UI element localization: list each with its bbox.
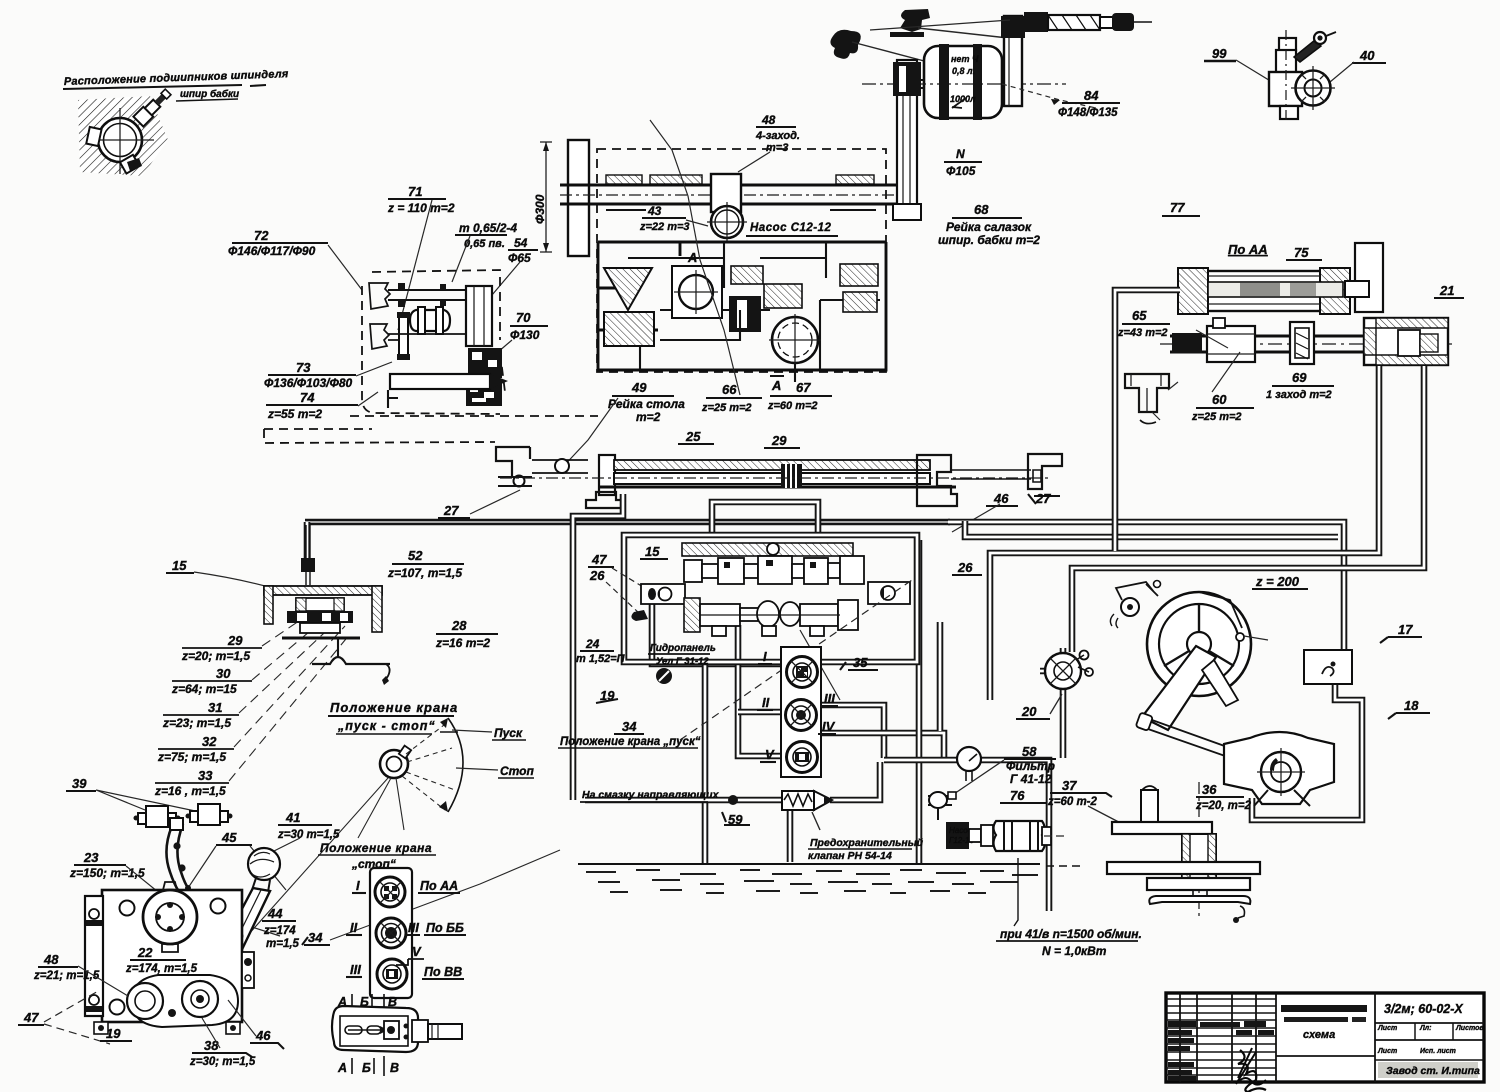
- svg-text:30: 30: [216, 666, 231, 681]
- svg-text:Положение крана „пуск“: Положение крана „пуск“: [560, 736, 701, 748]
- svg-text:18: 18: [1404, 698, 1419, 713]
- svg-text:Ф105: Ф105: [946, 164, 976, 178]
- svg-text:1000л: 1000л: [950, 94, 976, 104]
- svg-text:71: 71: [408, 184, 422, 199]
- svg-text:Ф146/Ф117/Ф90: Ф146/Ф117/Ф90: [228, 244, 316, 258]
- svg-text:15: 15: [645, 544, 660, 559]
- svg-text:24: 24: [585, 637, 600, 651]
- svg-text:0,65 пв.: 0,65 пв.: [464, 238, 505, 250]
- svg-text:z=55 m=2: z=55 m=2: [267, 407, 322, 421]
- svg-text:34: 34: [308, 930, 323, 945]
- svg-text:шпир бабки: шпир бабки: [180, 88, 239, 100]
- svg-text:75: 75: [1294, 245, 1309, 260]
- svg-text:z=107, m=1,5: z=107, m=1,5: [387, 566, 462, 580]
- svg-text:0,8 л.: 0,8 л.: [952, 66, 975, 76]
- svg-text:z=174: z=174: [263, 925, 296, 937]
- svg-text:32: 32: [202, 734, 217, 749]
- svg-text:36: 36: [1202, 782, 1217, 797]
- svg-text:V: V: [765, 747, 775, 762]
- svg-text:67: 67: [796, 380, 811, 395]
- svg-text:Фильтр: Фильтр: [1006, 759, 1055, 773]
- svg-text:N = 1,0кВт: N = 1,0кВт: [1042, 944, 1107, 958]
- svg-text:1 заход m=2: 1 заход m=2: [1266, 389, 1332, 401]
- svg-text:39: 39: [72, 776, 87, 791]
- svg-text:z = 200: z = 200: [1255, 574, 1300, 589]
- svg-text:Г 41-12: Г 41-12: [1010, 772, 1052, 786]
- svg-text:37: 37: [1062, 778, 1077, 793]
- svg-text:z=75; m=1,5: z=75; m=1,5: [157, 750, 226, 764]
- svg-text:По ББ: По ББ: [426, 921, 464, 935]
- svg-text:z=23; m=1,5: z=23; m=1,5: [162, 716, 231, 730]
- svg-text:N: N: [956, 147, 965, 161]
- svg-text:z=21; m=1,5: z=21; m=1,5: [33, 970, 100, 982]
- svg-text:I: I: [356, 878, 360, 893]
- svg-text:58: 58: [1022, 744, 1037, 759]
- svg-text:26: 26: [957, 560, 973, 575]
- svg-text:48: 48: [43, 952, 59, 967]
- svg-text:II: II: [350, 920, 358, 935]
- svg-text:27: 27: [443, 503, 459, 518]
- svg-text:52: 52: [408, 548, 423, 563]
- svg-text:IV: IV: [822, 719, 836, 734]
- svg-text:Пуск: Пуск: [494, 726, 523, 740]
- svg-text:70: 70: [516, 310, 531, 325]
- svg-text:III: III: [824, 691, 835, 706]
- svg-text:46: 46: [993, 491, 1009, 506]
- svg-text:84: 84: [1084, 88, 1099, 103]
- svg-text:41: 41: [285, 810, 300, 825]
- svg-text:38: 38: [204, 1038, 219, 1053]
- svg-text:48: 48: [761, 113, 776, 127]
- svg-text:А: А: [687, 250, 697, 265]
- svg-text:m=1,5: m=1,5: [266, 938, 300, 950]
- svg-text:65: 65: [1132, 308, 1147, 323]
- svg-text:m 1,52=П: m 1,52=П: [576, 653, 626, 665]
- svg-text:z = 110 m=2: z = 110 m=2: [387, 201, 455, 215]
- svg-text:40: 40: [1359, 48, 1375, 63]
- svg-text:II: II: [762, 695, 770, 710]
- svg-text:По ВВ: По ВВ: [424, 965, 462, 979]
- svg-text:Рейка салазок: Рейка салазок: [946, 220, 1032, 234]
- svg-text:31: 31: [208, 700, 222, 715]
- svg-text:73: 73: [296, 360, 311, 375]
- svg-text:z=25 m=2: z=25 m=2: [1191, 411, 1242, 423]
- svg-text:„пуск - стоп“: „пуск - стоп“: [337, 719, 436, 733]
- svg-text:z=43 m=2: z=43 m=2: [1117, 327, 1168, 339]
- svg-text:77: 77: [1170, 200, 1185, 215]
- svg-text:нет Ч: нет Ч: [951, 54, 979, 64]
- svg-text:Уел Г 31-12: Уел Г 31-12: [656, 656, 709, 667]
- svg-text:35: 35: [853, 655, 868, 670]
- svg-text:60: 60: [1212, 392, 1227, 407]
- svg-text:20: 20: [1021, 704, 1037, 719]
- svg-text:Завод ст. И.типа: Завод ст. И.типа: [1386, 1065, 1480, 1077]
- svg-text:схема: схема: [1303, 1029, 1335, 1041]
- svg-text:43: 43: [647, 204, 662, 218]
- svg-text:Положение крана: Положение крана: [320, 841, 432, 855]
- svg-text:Положение крана: Положение крана: [330, 700, 458, 715]
- svg-text:при 41/в n=1500 об/мин.: при 41/в n=1500 об/мин.: [1000, 927, 1142, 941]
- svg-text:Стоп: Стоп: [500, 764, 535, 778]
- svg-text:По АА: По АА: [1228, 242, 1268, 257]
- svg-text:z=16 m=2: z=16 m=2: [435, 636, 490, 650]
- svg-text:Исп. лист: Исп. лист: [1420, 1048, 1456, 1055]
- svg-text:Гидропанель: Гидропанель: [650, 643, 716, 654]
- svg-text:3/2м; 60-02-Х: 3/2м; 60-02-Х: [1384, 1002, 1463, 1016]
- svg-text:72: 72: [254, 228, 269, 243]
- svg-text:Б: Б: [362, 1061, 371, 1075]
- svg-text:54: 54: [514, 236, 528, 250]
- svg-text:99: 99: [1212, 46, 1227, 61]
- svg-text:69: 69: [1292, 370, 1307, 385]
- svg-text:47: 47: [591, 552, 607, 567]
- svg-text:15: 15: [172, 558, 187, 573]
- svg-text:28: 28: [451, 618, 467, 633]
- svg-text:z=30; m=1,5: z=30; m=1,5: [189, 1056, 256, 1068]
- svg-text:шпир. бабки m=2: шпир. бабки m=2: [938, 233, 1040, 247]
- svg-text:Рейка стола: Рейка стола: [608, 397, 685, 411]
- svg-text:68: 68: [974, 202, 989, 217]
- svg-text:Лист: Лист: [1377, 1025, 1397, 1032]
- svg-text:22: 22: [137, 945, 153, 960]
- svg-text:49: 49: [631, 380, 647, 395]
- svg-text:z=60 m=2: z=60 m=2: [767, 400, 818, 412]
- svg-text:4-заход.: 4-заход.: [755, 130, 800, 142]
- svg-text:29: 29: [771, 433, 787, 448]
- svg-text:45: 45: [221, 830, 237, 845]
- svg-text:z=30 m=1,5: z=30 m=1,5: [277, 829, 340, 841]
- svg-text:25: 25: [685, 429, 701, 444]
- svg-text:21: 21: [1439, 283, 1454, 298]
- svg-text:34: 34: [622, 719, 637, 734]
- svg-text:z=20, m=2: z=20, m=2: [1195, 800, 1252, 812]
- svg-text:17: 17: [1398, 622, 1413, 637]
- svg-text:Ф136/Ф103/Ф80: Ф136/Ф103/Ф80: [264, 376, 352, 390]
- svg-text:46: 46: [255, 1028, 271, 1043]
- svg-text:I: I: [763, 649, 767, 664]
- svg-text:23: 23: [83, 850, 99, 865]
- svg-text:Лл:: Лл:: [1419, 1025, 1432, 1032]
- svg-text:Насос С12-12: Насос С12-12: [750, 222, 832, 234]
- svg-text:z=64; m=15: z=64; m=15: [171, 682, 237, 696]
- svg-text:т 0,65/2-4: т 0,65/2-4: [459, 221, 517, 235]
- svg-text:Предохранительный: Предохранительный: [810, 837, 924, 849]
- svg-text:47: 47: [23, 1010, 39, 1025]
- svg-text:29: 29: [227, 633, 243, 648]
- svg-text:74: 74: [300, 390, 315, 405]
- svg-text:z=16 , m=1,5: z=16 , m=1,5: [154, 784, 226, 798]
- svg-text:z=25 m=2: z=25 m=2: [701, 402, 752, 414]
- svg-text:76: 76: [1010, 788, 1025, 803]
- svg-text:Листов: Листов: [1455, 1025, 1484, 1032]
- svg-text:z=20; m=1,5: z=20; m=1,5: [181, 649, 250, 663]
- svg-text:III: III: [350, 962, 361, 977]
- svg-text:А: А: [337, 1061, 347, 1075]
- svg-text:На смазку направляющих: На смазку направляющих: [582, 789, 720, 801]
- svg-text:z=150; m=1,5: z=150; m=1,5: [69, 866, 145, 880]
- svg-text:Ф130: Ф130: [510, 328, 540, 342]
- svg-text:66: 66: [722, 382, 737, 397]
- svg-text:27: 27: [1035, 491, 1051, 506]
- svg-text:В: В: [390, 1061, 399, 1075]
- svg-text:V: V: [412, 944, 422, 959]
- svg-text:z=174, m=1,5: z=174, m=1,5: [125, 963, 198, 975]
- svg-text:Ф300: Ф300: [533, 194, 547, 224]
- svg-text:33: 33: [198, 768, 213, 783]
- svg-text:А: А: [771, 378, 781, 393]
- svg-text:III: III: [408, 920, 419, 935]
- svg-text:44: 44: [267, 906, 283, 921]
- svg-text:26: 26: [589, 568, 605, 583]
- svg-text:m=2: m=2: [636, 410, 661, 424]
- svg-text:клапан РН 54-14: клапан РН 54-14: [808, 850, 892, 862]
- svg-text:Лист: Лист: [1377, 1048, 1397, 1055]
- svg-text:Ф148/Ф135: Ф148/Ф135: [1058, 107, 1118, 119]
- svg-text:z=60 m-2: z=60 m-2: [1047, 796, 1098, 808]
- svg-text:По АА: По АА: [420, 879, 458, 893]
- svg-text:z=22 m=3: z=22 m=3: [639, 221, 690, 233]
